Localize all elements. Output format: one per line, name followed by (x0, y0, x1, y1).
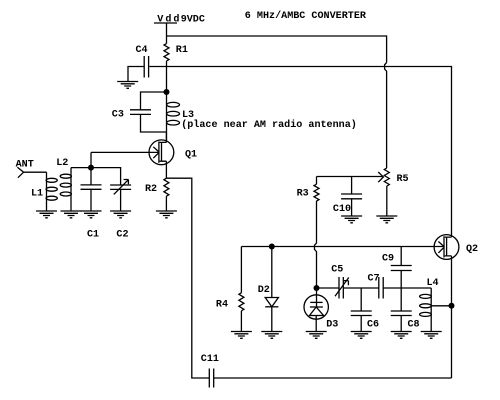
svg-text:C2: C2 (116, 229, 128, 240)
svg-text:(place near AM radio antenna): (place near AM radio antenna) (181, 119, 357, 131)
svg-text:R5: R5 (397, 174, 409, 185)
wire wiper line (317, 176, 384, 178)
ground R2 (156, 211, 177, 218)
transistor Q1 (149, 140, 197, 165)
wire node riser to Q1 gate (90, 152, 92, 167)
wire L4 tap (431, 305, 451, 307)
wire Q1 gate lead (91, 151, 159, 153)
wire gate rail Q2 (241, 246, 444, 248)
svg-text:6 MHz/AMBC CONVERTER: 6 MHz/AMBC CONVERTER (245, 10, 367, 22)
svg-text:L4: L4 (427, 278, 439, 289)
svg-text:C5: C5 (331, 265, 343, 276)
ground D2 (261, 332, 282, 339)
capacitor C9 (382, 247, 412, 312)
resistor R4 (216, 247, 244, 332)
wire R1 top (166, 36, 168, 44)
inductor L3 (167, 92, 195, 141)
svg-text:L2: L2 (56, 158, 68, 169)
capacitor C4 (128, 45, 149, 81)
wire Q1 source (165, 161, 167, 178)
svg-text:C4: C4 (136, 45, 148, 56)
svg-text:C7: C7 (368, 273, 380, 284)
ground L4 (421, 332, 442, 339)
resistor R1 (164, 44, 188, 61)
svg-text:C1: C1 (87, 229, 99, 240)
wire rail to tank node (166, 67, 168, 93)
wire varactor node to C5 (317, 287, 339, 289)
wire Q2 source (451, 256, 453, 378)
ground C2 (110, 211, 131, 218)
capacitor C2 variable (110, 180, 131, 241)
node tank junction (164, 89, 170, 95)
wire L2 to node (71, 167, 91, 169)
node varactor (314, 285, 320, 291)
wire C7 to L4 (383, 287, 431, 289)
svg-text:C11: C11 (201, 354, 219, 365)
ground C6 (351, 332, 372, 339)
ground L2 (61, 211, 82, 218)
power Vdd 9VDC (154, 14, 205, 26)
capacitor C1 (81, 168, 102, 241)
wire antenna lead (24, 171, 47, 173)
wire source to bottom rail (166, 178, 209, 378)
ground C8 (391, 332, 412, 339)
varactor D3 (304, 288, 338, 332)
svg-text:R1: R1 (176, 45, 188, 56)
capacitor C3 (112, 92, 167, 132)
transistor Q2 (434, 235, 478, 260)
ground C4 (117, 82, 138, 89)
capacitor C5 variable (331, 265, 349, 299)
ground R4 (231, 332, 252, 339)
svg-text:C6: C6 (367, 320, 379, 331)
svg-text:R2: R2 (145, 184, 157, 195)
svg-text:D2: D2 (258, 285, 270, 296)
resistor R2 (145, 178, 169, 211)
svg-text:Vdd: Vdd (157, 14, 181, 26)
node antenna tank (88, 165, 94, 171)
svg-text:C8: C8 (408, 320, 420, 331)
capacitor C6 (351, 288, 379, 332)
wire jog over rail at R5 vertical (385, 63, 387, 168)
wire R3 to varactor node with jog over gate rail (315, 201, 317, 288)
svg-text:C10: C10 (333, 204, 351, 215)
wire Q1 drain (165, 132, 167, 142)
ground C10 (341, 216, 362, 223)
svg-text:L1: L1 (31, 189, 43, 200)
wire C5 to C6 node (343, 287, 379, 289)
inductor L2 (56, 158, 71, 211)
capacitor C10 (333, 177, 362, 217)
wire Vdd to R5 branch (167, 36, 387, 63)
wire supply rail to Q2 drain (149, 67, 451, 238)
wiper arrow R5 (378, 172, 383, 182)
inductor L1 (31, 172, 57, 211)
ground D3 (306, 332, 327, 339)
svg-text:Q2: Q2 (466, 244, 478, 255)
svg-text:C3: C3 (112, 109, 124, 120)
inductor L4 (420, 278, 439, 332)
node L4 tap Q2 source (449, 303, 455, 309)
svg-text:9VDC: 9VDC (181, 14, 205, 25)
capacitor C7 (368, 273, 384, 298)
svg-text:D3: D3 (326, 320, 338, 331)
wire node to C2 (91, 168, 121, 185)
ground R5 (376, 216, 397, 223)
svg-text:ANT: ANT (16, 159, 34, 170)
ground L1 (36, 211, 57, 218)
svg-text:Q1: Q1 (185, 150, 197, 161)
capacitor C11 (201, 354, 219, 387)
wire R1 bottom (166, 61, 168, 67)
node D2 top (269, 244, 275, 250)
resistor R3 (297, 177, 319, 202)
antenna terminal ANT (16, 159, 34, 177)
resistor R5 potentiometer (384, 168, 408, 216)
wire bottom rail (214, 377, 452, 379)
note text place near AM radio antenna (181, 119, 357, 131)
title text (245, 10, 367, 22)
svg-text:R3: R3 (297, 188, 309, 199)
ground C1 (81, 211, 102, 218)
svg-text:C9: C9 (382, 253, 394, 264)
capacitor C8 (391, 311, 420, 332)
diode D2 (258, 247, 279, 332)
wire Vdd stem (166, 23, 168, 36)
svg-text:R4: R4 (216, 299, 228, 310)
